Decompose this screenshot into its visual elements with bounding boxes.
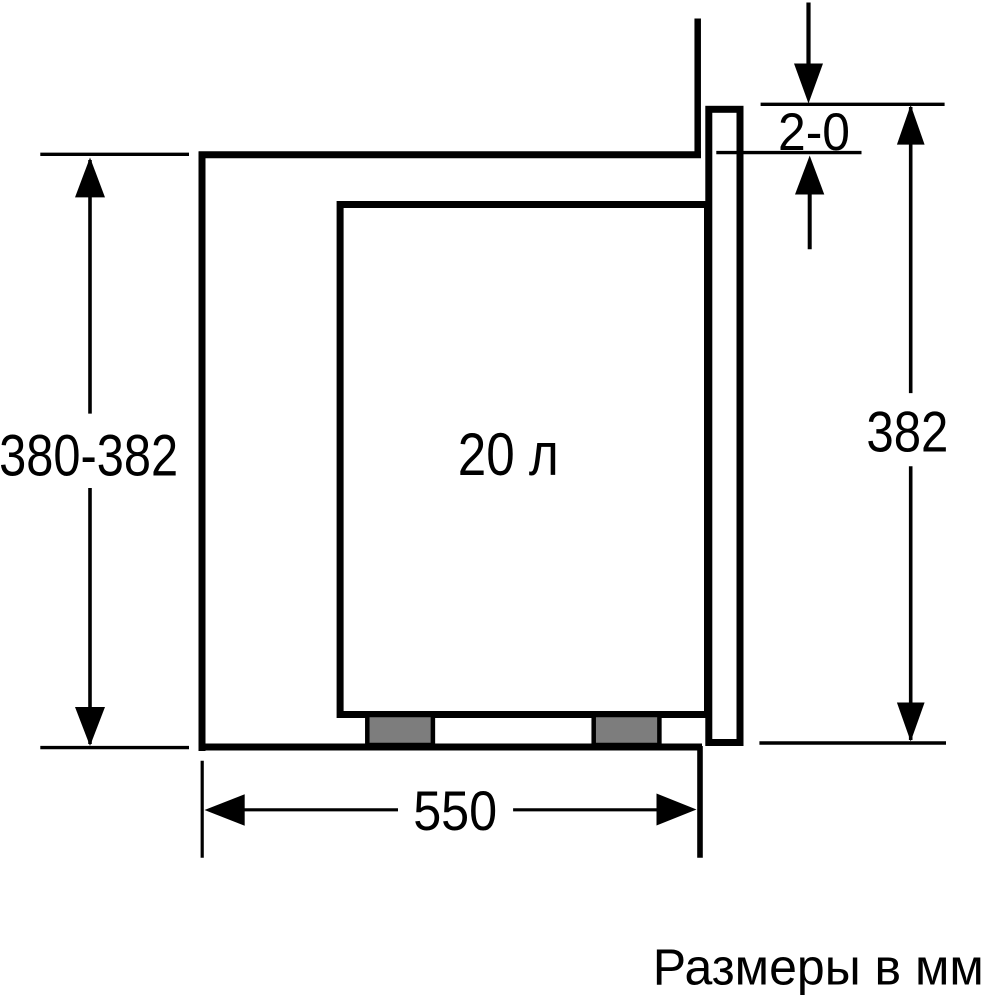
- arrowhead 380-382 up: [75, 158, 105, 198]
- extension line 382 bottom: [759, 741, 946, 744]
- wall (top partition above niche): [694, 19, 701, 159]
- arrowhead 550 left: [205, 794, 245, 826]
- extension line 2-0 lower: [716, 151, 861, 154]
- dimension line 382 upper segment: [909, 107, 913, 393]
- extension line 550 left (vertical): [201, 761, 204, 858]
- arrowhead 550 right: [657, 794, 697, 826]
- dimension line 550 left segment: [240, 808, 398, 811]
- svg-text:382: 382: [866, 401, 948, 465]
- arrowhead 382 down: [897, 703, 925, 742]
- cavity box 20 l: [340, 205, 707, 715]
- extension line left bottom: [40, 746, 189, 749]
- svg-text:2-0: 2-0: [778, 103, 850, 162]
- cabinet niche outline (left wall, top, bottom): [199, 151, 702, 751]
- dimension arrow 2-0 bottom (pointing up): [808, 192, 812, 249]
- svg-text:20 л: 20 л: [458, 421, 559, 488]
- dimension line 380-382 lower segment: [88, 488, 92, 744]
- extension line 2-0 upper / 382 top: [761, 103, 945, 106]
- svg-text:380-382: 380-382: [0, 423, 178, 488]
- arrowhead 380-382 down: [75, 707, 105, 746]
- dimension line 382 lower segment: [909, 466, 913, 740]
- door frame (front trim): [709, 109, 740, 742]
- extension line 550 right (vertical): [697, 746, 703, 858]
- dimension line 550 right segment: [513, 808, 660, 811]
- foot left: [367, 715, 433, 745]
- dimension arrow 2-0 top (pointing down): [806, 3, 810, 71]
- svg-text:550: 550: [413, 780, 497, 842]
- extension line left top: [40, 153, 189, 156]
- dimension line 380-382 upper segment: [88, 160, 92, 414]
- foot right: [594, 715, 660, 745]
- arrowhead 382 up: [897, 105, 925, 145]
- svg-text:Размеры в мм: Размеры в мм: [653, 939, 982, 996]
